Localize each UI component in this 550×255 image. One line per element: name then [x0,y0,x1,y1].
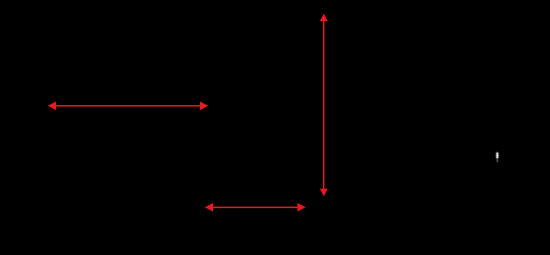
horizontal dimension arrow (bottom, double-headed) [205,203,306,212]
wire [211,207,299,209]
wire [54,105,202,107]
node right arrowhead [200,102,208,111]
wire [323,20,325,190]
node bottom arrowhead [320,189,328,197]
node top arrowhead [320,14,328,22]
node left arrowhead [48,102,56,111]
node left arrowhead [205,203,213,212]
white tick mark [496,152,498,162]
horizontal dimension arrow (top-left, double-headed) [48,102,208,111]
node right arrowhead [297,203,305,212]
vertical dimension arrow (center, double-headed) [320,14,328,197]
